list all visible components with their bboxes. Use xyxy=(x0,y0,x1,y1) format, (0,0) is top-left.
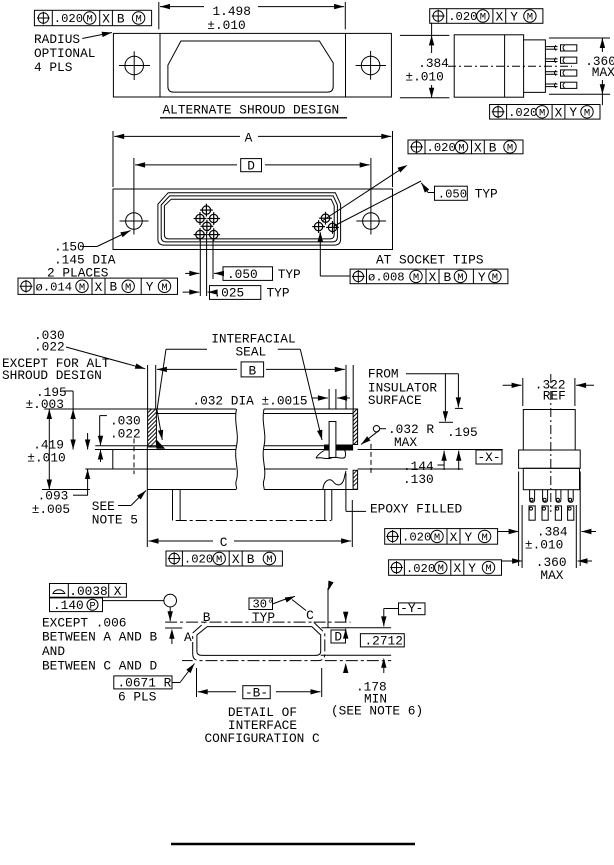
svg-text:BETWEEN A AND B: BETWEEN A AND B xyxy=(42,630,158,645)
svg-text:(SEE NOTE 6): (SEE NOTE 6) xyxy=(331,704,423,719)
svg-text:P: P xyxy=(89,600,95,612)
flange bottom line y=469 xyxy=(85,468,236,470)
svg-text:.050: .050 xyxy=(227,267,258,282)
svg-text:M: M xyxy=(481,532,487,544)
section flange top line y=449.5 xyxy=(95,449,236,451)
FCF position .020 M X B M (C dim) xyxy=(166,551,282,566)
rear view socket bodies (4) xyxy=(529,506,535,520)
detail interface shape outer (phantom) xyxy=(193,622,325,661)
interface plane line (datum Y) xyxy=(322,627,392,629)
FCF position .020 M X Y M (side view top) xyxy=(430,9,543,24)
right wall hatch upper xyxy=(353,409,358,445)
svg-text:X: X xyxy=(114,584,122,599)
svg-text:4 PLS: 4 PLS xyxy=(34,60,73,75)
svg-text:.020: .020 xyxy=(448,10,477,24)
svg-text:Y: Y xyxy=(569,105,577,120)
front view: connector body outline xyxy=(113,189,393,250)
FCF position dia .008 M X B M Y M (socket tips) xyxy=(350,269,508,284)
boxed .2712 xyxy=(360,634,404,647)
FCF position .020 M X B M (front view) xyxy=(408,140,523,154)
break squiggle right part xyxy=(263,409,265,490)
svg-text:.0038: .0038 xyxy=(69,584,107,599)
label 30 deg TYP boxed xyxy=(249,598,273,610)
section line y=445.8 xyxy=(95,445,236,447)
mounting hole left (front view) xyxy=(126,213,143,230)
svg-text:M: M xyxy=(584,107,590,119)
svg-text:M: M xyxy=(413,272,419,284)
svg-text:M: M xyxy=(480,12,486,24)
svg-text:-X-: -X- xyxy=(477,450,500,465)
dimension .384 +/-.010 (side view height) xyxy=(400,34,450,36)
vertical extension at corner C xyxy=(327,588,329,628)
side view body xyxy=(454,35,523,97)
svg-text:M: M xyxy=(458,143,464,155)
dimension .178 MIN (SEE NOTE 6) xyxy=(345,668,347,674)
svg-text:A: A xyxy=(245,130,253,145)
lower skirt bottom (phantom) xyxy=(176,520,331,522)
datum -Y- box with leader xyxy=(399,603,426,615)
svg-text:Y: Y xyxy=(146,280,154,295)
svg-text:M: M xyxy=(485,563,491,575)
left extension lines of interface profile xyxy=(165,627,182,629)
svg-text:.0671 R: .0671 R xyxy=(118,676,172,691)
leader .0671 to corner xyxy=(172,682,180,684)
flange divider lines xyxy=(159,33,161,97)
svg-text:MAX: MAX xyxy=(540,568,563,583)
svg-text:C: C xyxy=(306,608,314,623)
interface top line extensions (phantom) xyxy=(165,621,205,623)
svg-text:Y: Y xyxy=(478,270,486,285)
socket cluster left (6 pins) xyxy=(202,206,210,214)
dimension .360 MAX (rear) xyxy=(502,560,517,562)
dimension .025 TYP (below) xyxy=(183,291,200,293)
surface ticks xyxy=(439,421,453,423)
svg-text:.130: .130 xyxy=(403,472,434,487)
left interfacial seal wall (hatched) xyxy=(148,409,157,447)
svg-text:OPTIONAL: OPTIONAL xyxy=(34,46,95,61)
svg-text:1.498: 1.498 xyxy=(213,4,251,19)
svg-text:M: M xyxy=(434,532,440,544)
svg-text:ø.014: ø.014 xyxy=(36,280,73,294)
svg-text:M: M xyxy=(161,282,167,294)
svg-text:±.010: ±.010 xyxy=(207,18,245,33)
svg-text:EPOXY FILLED: EPOXY FILLED xyxy=(370,502,462,517)
interfacial seal leader left xyxy=(166,348,207,350)
balloon circle xyxy=(164,594,177,607)
svg-text:X: X xyxy=(232,552,240,567)
dimension .384 +/-.010 (rear) xyxy=(498,531,513,533)
svg-text:X: X xyxy=(453,561,461,576)
svg-text:MAX: MAX xyxy=(592,65,614,80)
svg-text:.032 DIA ±.0015: .032 DIA ±.0015 xyxy=(192,393,307,408)
dimension A (overall width) xyxy=(112,131,114,187)
svg-text:M: M xyxy=(507,143,513,155)
front view shroud middle outline xyxy=(161,196,337,242)
FCF position .020 M X Y M (rear lower) xyxy=(389,560,502,576)
interfacial seal leader right xyxy=(278,348,301,350)
side view centerline xyxy=(448,65,572,67)
svg-text:.020: .020 xyxy=(427,141,456,155)
.384 extension lines (rear) xyxy=(518,472,520,567)
svg-text:TYP: TYP xyxy=(475,186,498,201)
svg-text:M: M xyxy=(438,563,444,575)
FCF position dia .014 M X B M Y M xyxy=(18,278,178,294)
svg-text:BETWEEN C AND D: BETWEEN C AND D xyxy=(42,659,158,674)
svg-text:.022: .022 xyxy=(110,427,141,442)
svg-text:A: A xyxy=(184,630,192,645)
svg-text:TYP: TYP xyxy=(278,267,301,282)
svg-text:SEAL: SEAL xyxy=(236,345,267,360)
svg-text:M: M xyxy=(135,14,141,26)
footer rule xyxy=(171,843,415,846)
label .032 R MAX with leader circle xyxy=(373,426,379,432)
detail interface shape inner (solid) xyxy=(197,627,321,656)
svg-text:X: X xyxy=(474,140,482,155)
contact outline curves xyxy=(316,451,324,459)
svg-text:±.010: ±.010 xyxy=(27,451,65,466)
svg-text:.2712: .2712 xyxy=(365,634,403,649)
svg-text:±.005: ±.005 xyxy=(32,502,70,517)
leader lines to right sockets xyxy=(322,169,402,222)
socket cavity (white contact body) xyxy=(329,422,336,458)
dimension .050 TYP (below) xyxy=(185,272,199,274)
svg-text:Y: Y xyxy=(510,9,518,24)
svg-text:.020: .020 xyxy=(508,106,537,120)
lower reference lines right xyxy=(321,654,391,656)
svg-text:X: X xyxy=(429,270,437,285)
svg-text:M: M xyxy=(87,14,93,26)
label .050 TYP (right) xyxy=(428,192,435,194)
leader .030/.022 to seal gap xyxy=(66,347,145,369)
front view shroud inner outline xyxy=(164,199,334,239)
svg-text:M: M xyxy=(266,554,272,566)
leader 30deg to chamfer xyxy=(273,600,284,604)
svg-text:AT SOCKET TIPS: AT SOCKET TIPS xyxy=(376,253,484,268)
left seal black corner xyxy=(156,440,165,449)
svg-text:6 PLS: 6 PLS xyxy=(118,690,157,705)
rear view center line xyxy=(550,374,552,512)
svg-text:B: B xyxy=(117,11,125,26)
FCF position .020 M X B M (alt shroud view) xyxy=(34,10,151,25)
svg-text:.022: .022 xyxy=(34,340,65,355)
FCF .140 P xyxy=(50,598,103,612)
right interfacial seal (black bar) xyxy=(324,445,353,451)
dimension .360 MAX (contact spread) xyxy=(549,37,610,39)
svg-text:D: D xyxy=(247,159,255,174)
mounting hole right (top view) xyxy=(361,56,380,75)
svg-text:M: M xyxy=(492,272,498,284)
svg-text:.020: .020 xyxy=(402,531,431,545)
section: insulator top surface (double line) xyxy=(156,408,236,410)
svg-text:SHROUD DESIGN: SHROUD DESIGN xyxy=(2,368,102,383)
svg-text:M: M xyxy=(79,282,85,294)
svg-text:.140: .140 xyxy=(53,598,84,613)
leader radius note xyxy=(82,33,112,39)
right wall hatch lower xyxy=(353,470,358,489)
label .0671 R 6 PLS boxed xyxy=(114,676,172,689)
dimension C xyxy=(351,500,353,547)
svg-text:ALTERNATE SHROUD DESIGN: ALTERNATE SHROUD DESIGN xyxy=(163,103,340,118)
svg-text:SURFACE: SURFACE xyxy=(368,393,422,408)
leader from insulator surface xyxy=(406,373,458,375)
front view shroud D-shape outer xyxy=(158,193,341,245)
leader to mounting hole xyxy=(82,246,97,248)
svg-text:.050: .050 xyxy=(438,187,467,201)
rear view lower block xyxy=(523,468,579,489)
FCF profile of surface .0038 X xyxy=(50,584,127,598)
mounting hole left (top view) xyxy=(125,56,144,75)
shroud trapezoid (alt design) xyxy=(168,41,333,92)
svg-text:MAX: MAX xyxy=(394,435,417,450)
svg-text:C: C xyxy=(220,535,228,550)
svg-text:.020: .020 xyxy=(54,12,83,26)
svg-text:±.003: ±.003 xyxy=(26,397,64,412)
svg-text:-B-: -B- xyxy=(245,685,268,700)
FCF position .020 M X Y M (rear upper) xyxy=(385,529,498,545)
leader from right socket to FCF xyxy=(319,233,321,277)
socket cluster right (3 pins) xyxy=(321,214,329,222)
svg-text:B: B xyxy=(110,280,118,295)
svg-text:B: B xyxy=(248,363,256,378)
svg-text:NOTE 5: NOTE 5 xyxy=(92,513,138,528)
svg-text:Y: Y xyxy=(468,561,476,576)
svg-text:B: B xyxy=(489,140,497,155)
svg-text:TYP: TYP xyxy=(267,286,290,301)
svg-text:.195: .195 xyxy=(447,425,478,440)
svg-text:X: X xyxy=(495,10,503,25)
hole centerline right (section) xyxy=(370,444,372,474)
hole centerline left (section) xyxy=(133,439,135,475)
svg-text:M: M xyxy=(457,272,463,284)
dimension D (hole span) with boxed D xyxy=(133,158,135,235)
svg-text:REF: REF xyxy=(543,389,566,404)
mounting hole right (front view) xyxy=(363,213,380,230)
svg-text:±.010: ±.010 xyxy=(525,538,563,553)
dimension 1.498 +/-.010 xyxy=(158,2,160,29)
datum -X- box xyxy=(476,450,502,464)
lower skirt walls xyxy=(172,490,174,521)
left extension of top surface xyxy=(44,408,147,410)
svg-text:Y: Y xyxy=(465,530,473,545)
svg-text:B: B xyxy=(247,552,255,567)
dimension B with box xyxy=(147,365,149,409)
svg-text:RADIUS: RADIUS xyxy=(34,32,80,47)
dimension .144/.130 xyxy=(443,455,445,470)
extension lines below left sockets xyxy=(199,239,201,296)
body bottom line y=489.5 xyxy=(42,489,90,491)
svg-text:.025: .025 xyxy=(214,286,245,301)
alt shroud wall line (C datum extension) xyxy=(146,447,148,547)
flange left end xyxy=(112,450,114,470)
svg-text:TYP: TYP xyxy=(252,610,275,625)
note EPOXY FILLED with leader xyxy=(345,473,347,511)
side view shroud lip xyxy=(524,40,546,93)
dimension -B- (detail) xyxy=(196,668,198,697)
svg-text:.020: .020 xyxy=(184,553,213,567)
svg-text:X: X xyxy=(450,530,458,545)
rear view flange block xyxy=(519,450,581,468)
rear view top block xyxy=(523,410,575,451)
dimension .322 REF xyxy=(522,378,524,406)
dimension D (detail) xyxy=(331,630,346,643)
rear view contact tails (4) xyxy=(530,490,535,503)
svg-text:AND: AND xyxy=(42,644,65,659)
svg-text:EXCEPT .006: EXCEPT .006 xyxy=(42,615,126,630)
alt shroud view: connector body outline xyxy=(113,33,391,97)
.360 extension lines (rear) xyxy=(521,505,523,568)
svg-text:CONFIGURATION C: CONFIGURATION C xyxy=(205,731,321,746)
svg-text:ø.008: ø.008 xyxy=(368,271,405,285)
svg-text:M: M xyxy=(539,107,545,119)
FCF position .020 M X Y M (side view bottom) xyxy=(490,105,600,120)
epoxy meniscus curves xyxy=(323,471,346,489)
svg-text:X: X xyxy=(102,12,110,27)
dimension .030/.022 seal gap (inner) xyxy=(100,415,107,417)
svg-text:FROM: FROM xyxy=(368,367,399,382)
break squiggle left part xyxy=(236,409,238,490)
svg-text:-Y-: -Y- xyxy=(400,601,423,616)
leader to balloon xyxy=(103,600,164,602)
svg-text:M: M xyxy=(527,12,533,24)
svg-text:.020: .020 xyxy=(406,562,435,576)
svg-text:±.010: ±.010 xyxy=(405,70,443,85)
side view contacts (4 sockets) xyxy=(545,46,557,48)
svg-text:D: D xyxy=(334,630,342,645)
svg-text:X: X xyxy=(555,105,563,120)
svg-text:X: X xyxy=(95,280,103,295)
svg-text:M: M xyxy=(216,554,222,566)
svg-text:B: B xyxy=(444,270,452,285)
svg-text:M: M xyxy=(125,282,131,294)
